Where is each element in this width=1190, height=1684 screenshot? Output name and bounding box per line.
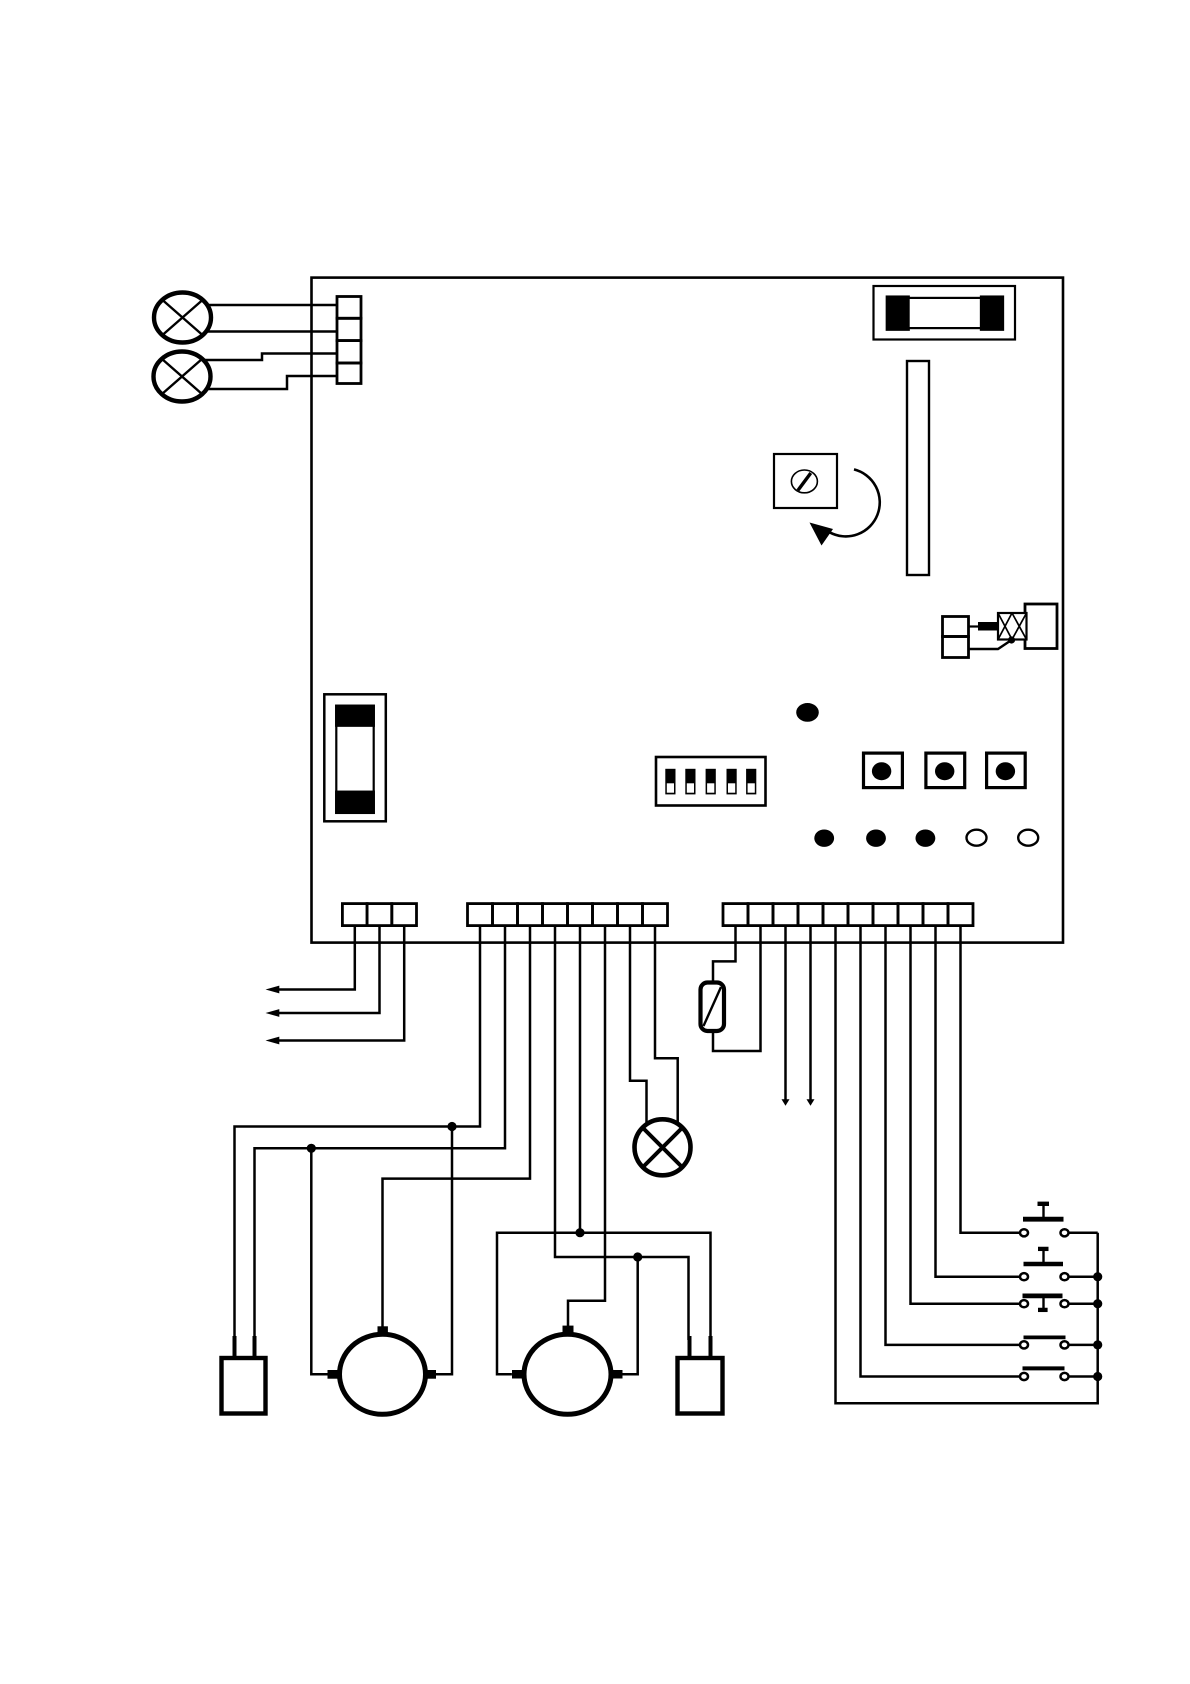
- wire S5 to bus: [1068, 1375, 1097, 1378]
- motor M2: [512, 1326, 623, 1415]
- wire TB3-6 to switch S5: [861, 925, 1020, 1377]
- button P2: [926, 753, 965, 788]
- radio module connector block: [943, 617, 969, 658]
- wire motor M2 left to capacitor C2 right: [497, 1233, 711, 1375]
- switch S1: [1020, 1204, 1069, 1237]
- wire TB2-6 to motor M2 top: [568, 925, 605, 1326]
- relay K1: [324, 694, 386, 821]
- heatsink bar: [907, 361, 929, 575]
- terminal block TB1: [342, 904, 416, 926]
- connector J1: [337, 297, 361, 384]
- wire TB2-7 to lamp LP3: [630, 925, 647, 1125]
- wire TB1-1 output: [278, 925, 355, 990]
- wire TB3-9 to switch S2: [936, 925, 1020, 1277]
- antenna feed bar: [978, 622, 998, 631]
- led DL4: [916, 830, 936, 847]
- switch S3: [1020, 1296, 1069, 1310]
- wire TB3-1 to fuse F2 top: [713, 925, 736, 982]
- wire S2 to bus: [1068, 1275, 1097, 1278]
- wire connector to shield: [969, 640, 1012, 649]
- wire S3 to bus: [1068, 1302, 1097, 1305]
- led DL5: [967, 830, 987, 846]
- button P3: [987, 753, 1026, 788]
- node shield junction: [1008, 636, 1015, 643]
- wire fuse F2 bottom to TB3-2: [713, 925, 761, 1051]
- potentiometer RV1: [774, 454, 837, 508]
- led DL6: [1018, 830, 1038, 846]
- wire TB3-4 output arrow: [809, 925, 812, 1100]
- led DL1: [796, 703, 819, 722]
- wire node A to motor M1 right: [436, 1127, 452, 1375]
- wire TB1-2 output: [278, 925, 380, 1013]
- motor M1: [328, 1326, 437, 1414]
- fuse F1 holder: [874, 286, 1016, 340]
- wire lamp LP2 to J1-4: [207, 376, 337, 389]
- crosshatched module: [998, 613, 1027, 640]
- capacitor C2: [678, 1336, 723, 1414]
- wire TB2-4 to capacitor C2 left: [555, 925, 689, 1340]
- lamp LP3: [635, 1119, 691, 1175]
- node bus-S2: [1093, 1272, 1102, 1281]
- switch S2: [1020, 1249, 1069, 1280]
- edge connector box: [1025, 604, 1057, 649]
- node bus-S5: [1093, 1372, 1102, 1381]
- wire TB1-3 output: [278, 925, 404, 1041]
- node J-C: [633, 1252, 642, 1261]
- wire TB2-2 to capacitor C1 right: [255, 925, 506, 1340]
- wire TB3-10 to switch S1: [961, 925, 1020, 1233]
- wire connector to antenna bar: [969, 625, 979, 627]
- wire TB3-5 to switch bus bottom: [836, 925, 1098, 1403]
- wire TB3-7 to switch S4: [886, 925, 1020, 1345]
- wire lamp LP2 to J1-3: [204, 354, 337, 361]
- wire TB2-5 to node D: [579, 925, 582, 1233]
- wire TB3-8 to switch S3: [911, 925, 1020, 1304]
- terminal block TB3: [723, 904, 973, 926]
- terminal block TB2: [468, 904, 668, 926]
- switch S4: [1020, 1337, 1069, 1348]
- dip switch SW1 block: [656, 757, 766, 806]
- node J-A: [447, 1122, 456, 1131]
- switch S5: [1020, 1368, 1069, 1380]
- wire node C to motor M2 right: [622, 1257, 637, 1374]
- wire lamp LP1 to J1-1: [207, 304, 337, 307]
- control board outline: [312, 278, 1064, 943]
- node bus-S4: [1093, 1340, 1102, 1349]
- wire S4 to bus: [1068, 1344, 1097, 1347]
- wire S1 to bus: [1068, 1232, 1097, 1235]
- node J-D: [575, 1228, 584, 1237]
- led DL2: [814, 830, 834, 847]
- wire TB2-3 to motor M1 top: [383, 925, 531, 1327]
- lamp LP2: [154, 352, 211, 402]
- wire TB3-3 output arrow: [784, 925, 787, 1100]
- wire TB2-1 to capacitor C1 left: [235, 925, 481, 1340]
- button P1: [864, 753, 903, 788]
- rotation arrow: [810, 469, 880, 545]
- wire TB2-8 to lamp LP3: [655, 925, 678, 1124]
- led DL3: [866, 830, 886, 847]
- node bus-S3: [1093, 1299, 1102, 1308]
- wire node B to motor M1 left: [311, 1148, 327, 1374]
- capacitor C1: [222, 1336, 266, 1414]
- wire lamp LP1 to J1-2: [206, 330, 337, 333]
- fuse F2: [701, 983, 725, 1032]
- node J-B: [307, 1144, 316, 1153]
- lamp LP1: [154, 293, 211, 343]
